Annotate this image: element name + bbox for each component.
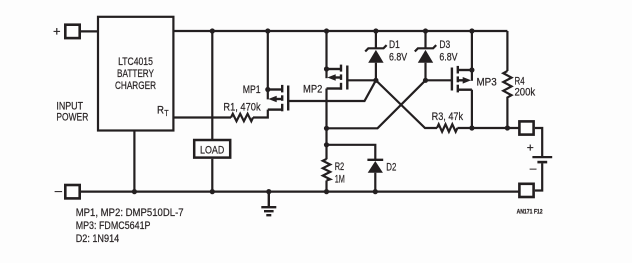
node r2 rail [324, 189, 329, 194]
node mp1 source-stub [265, 87, 270, 92]
svg-text:T: T [164, 108, 168, 118]
zener D3 [415, 31, 436, 80]
D3 top wire [424, 31, 426, 49]
svg-text:BATTERY: BATTERY [117, 68, 154, 80]
D2 cathode bar [367, 159, 383, 161]
node gnd rail [266, 189, 271, 194]
RT pin wire [174, 116, 231, 118]
svg-text:R3, 47k: R3, 47k [432, 111, 464, 123]
wire LOAD branch top [211, 31, 213, 140]
svg-text:LOAD: LOAD [200, 144, 224, 156]
svg-text:AN171 F12: AN171 F12 [517, 209, 544, 215]
node rail-d1 [373, 28, 378, 33]
MP1 body stub arrow [275, 98, 281, 100]
node gnd pin rail [132, 189, 137, 194]
node mp2 drain cross [324, 126, 329, 131]
bottom rail wire [81, 191, 520, 193]
zener D1 [365, 31, 386, 80]
MP2 gate lead wire [348, 79, 376, 81]
svg-text:+: + [53, 24, 61, 39]
wire cross-couple diagonal B [327, 80, 426, 128]
svg-text:D1: D1 [389, 39, 400, 51]
wire R3 to battery node [457, 127, 519, 129]
svg-text:200k: 200k [515, 86, 536, 98]
wire R1 to MP1 [253, 110, 268, 118]
D3 cathode bar [415, 45, 436, 51]
MP3 source wire from rail [471, 31, 473, 81]
node mp2 source-stub [324, 66, 329, 71]
svg-text:–: – [530, 161, 537, 175]
MP3 bottom stub [459, 88, 472, 90]
wire cross-couple diagonal A [376, 80, 437, 128]
node d2 rail [373, 189, 378, 194]
input + terminal square [65, 25, 79, 38]
node mp3 source-stub [469, 67, 474, 72]
wire terminal to battery [535, 128, 542, 156]
node rail-mp1 [265, 28, 270, 33]
transistor MP2 [327, 31, 376, 159]
MP1 gate plate [287, 86, 289, 111]
node d1 anode [373, 78, 378, 83]
MP3 gate lead wire [426, 79, 452, 81]
node rail-d3 [423, 28, 428, 33]
MP1 bottom stub [268, 108, 281, 110]
resistor R3 [437, 124, 457, 131]
MP2 body stub arrow [334, 76, 340, 78]
MP3 gate plate [451, 68, 453, 91]
node r4 bottom [505, 125, 510, 130]
svg-text:6.8V: 6.8V [389, 52, 408, 64]
battery - output terminal square [519, 184, 533, 197]
top rail wire [174, 30, 507, 32]
svg-text:MP3: MP3 [477, 77, 497, 89]
svg-text:+: + [527, 140, 534, 154]
MP3 top stub [459, 69, 472, 71]
wire + terminal to charger [81, 30, 99, 32]
node d3 anode [423, 78, 428, 83]
MP3 drain wire down [471, 90, 473, 128]
MP2 channel bar segments [340, 65, 342, 72]
svg-text:MP2: MP2 [303, 84, 322, 96]
transistor MP1 [268, 31, 376, 111]
node rail-mp3 [469, 28, 474, 33]
svg-text:MP1: MP1 [243, 84, 261, 96]
D1 top wire [375, 31, 377, 49]
D1 cathode bar [365, 45, 386, 51]
D3 anode wire [424, 63, 426, 81]
svg-text:INPUT: INPUT [56, 100, 83, 112]
svg-text:MP3: FDMC5641P: MP3: FDMC5641P [76, 220, 151, 232]
svg-text:D2: 1N914: D2: 1N914 [76, 233, 120, 245]
svg-text:D2: D2 [386, 162, 396, 174]
MP2 bottom stub [327, 87, 341, 89]
MP2 top stub [327, 68, 341, 70]
node load rail [210, 189, 215, 194]
battery + output terminal square [519, 121, 533, 134]
resistor R4 [503, 71, 511, 98]
LTC4015 charger box U1 [98, 17, 173, 131]
wire battery to - output terminal [535, 163, 542, 190]
MP2 drain wire down [325, 89, 327, 160]
svg-text:1M: 1M [335, 174, 345, 186]
diode D2 [367, 160, 383, 192]
resistor R2 [323, 159, 330, 181]
resistor R1 [231, 114, 253, 121]
wire LOAD branch bottom [211, 159, 213, 192]
R4 bottom wire [506, 98, 508, 128]
D2 anode wire [374, 173, 376, 192]
MP1 channel bar segments [281, 85, 283, 93]
MP3 channel bar segments [457, 66, 459, 74]
node rail-mp2 [324, 28, 329, 33]
svg-text:R2: R2 [335, 161, 345, 173]
svg-text:–: – [55, 183, 63, 198]
node mp3 drain-r3 [469, 125, 474, 130]
MP2 source wire from rail [325, 31, 327, 78]
MP1 top stub [268, 88, 281, 90]
charger GND pin wire [133, 131, 135, 192]
MP2 gate plate [346, 66, 348, 90]
MP3 body stub arrow [459, 79, 464, 81]
svg-text:D3: D3 [439, 39, 450, 51]
node rail-load [210, 28, 215, 33]
svg-text:CHARGER: CHARGER [115, 80, 156, 92]
transistor MP3 [426, 31, 472, 128]
svg-text:MP1, MP2: DMP510DL-7: MP1, MP2: DMP510DL-7 [76, 207, 184, 219]
wire R2 bottom [325, 181, 327, 192]
node r2-d2 top [324, 142, 329, 147]
ground symbol [261, 192, 276, 216]
svg-text:R1, 470k: R1, 470k [223, 102, 261, 114]
R4 top wire [506, 31, 508, 71]
battery B1 [532, 157, 552, 162]
MP1 source wire from rail [267, 31, 269, 99]
LOAD box [194, 140, 230, 158]
svg-text:LTC4015: LTC4015 [118, 56, 153, 68]
MP1 gate lead wire [289, 80, 376, 101]
input - terminal square [65, 185, 79, 198]
D1 anode wire [375, 63, 377, 81]
svg-text:6.8V: 6.8V [439, 52, 458, 64]
wire node A to R2 top / D2 branch [327, 145, 376, 160]
svg-text:R: R [157, 105, 164, 117]
svg-text:POWER: POWER [56, 112, 88, 124]
